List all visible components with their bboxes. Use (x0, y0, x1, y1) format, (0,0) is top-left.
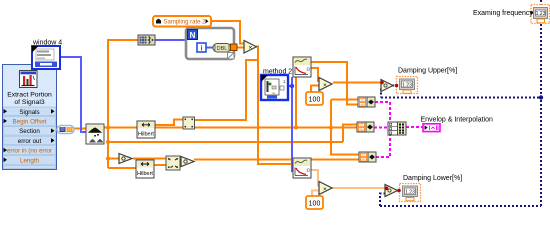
svg-text:100: 100 (309, 201, 321, 208)
svg-text:error in (no error: error in (no error (7, 148, 52, 155)
svg-text:Signals: Signals (19, 109, 39, 116)
svg-text:Extract Portion: Extract Portion (7, 92, 52, 99)
svg-text:Begin Offset: Begin Offset (13, 119, 47, 126)
svg-text:Sampling rate 2: Sampling rate 2 (164, 20, 207, 26)
svg-text:Length: Length (20, 157, 39, 164)
svg-text:i: i (200, 44, 202, 53)
svg-text:Hilbert: Hilbert (138, 132, 154, 138)
svg-text:Examing frequency: Examing frequency (473, 10, 533, 17)
svg-text:Envelop & Interpolation: Envelop & Interpolation (421, 117, 493, 124)
svg-text:Hilbert: Hilbert (137, 171, 153, 177)
svg-text:Damping Lower[%]: Damping Lower[%] (403, 175, 462, 182)
svg-text:×: × (323, 186, 327, 193)
svg-text:Section: Section (19, 128, 40, 135)
svg-text:error out: error out (18, 138, 42, 145)
svg-text:of Signal3: of Signal3 (14, 99, 44, 106)
svg-text:100: 100 (309, 97, 321, 104)
svg-text:1.23: 1.23 (405, 190, 415, 196)
svg-text:1.23: 1.23 (402, 83, 412, 89)
svg-text:DBL: DBL (217, 46, 228, 52)
svg-text:Damping Upper[%]: Damping Upper[%] (398, 68, 457, 75)
svg-text:N: N (190, 31, 196, 40)
svg-text:window 4: window 4 (32, 40, 62, 47)
svg-text:method 2: method 2 (263, 69, 292, 76)
svg-text:1.23: 1.23 (536, 11, 546, 17)
svg-text:×: × (249, 44, 253, 51)
svg-text:×: × (323, 82, 327, 89)
